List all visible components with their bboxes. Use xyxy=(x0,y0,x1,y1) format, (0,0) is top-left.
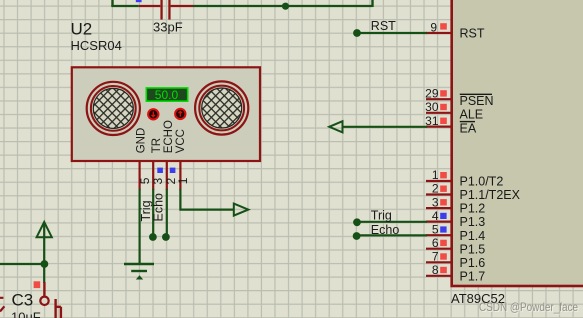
MCU pin stub 30 xyxy=(426,112,451,114)
svg-text:5: 5 xyxy=(138,177,152,184)
pin marker red square 9 xyxy=(440,23,447,29)
pin marker red square 31 xyxy=(440,118,447,124)
LED indicator down xyxy=(148,109,158,119)
pin marker blue square (clipped at top) xyxy=(136,0,142,2)
wire Trig to pin 4 xyxy=(357,221,427,223)
capacitor C (33pF) left lead xyxy=(139,5,161,7)
MCU pin label PSEN (overlined) xyxy=(460,94,494,108)
wire top-left vertical into clock net xyxy=(111,0,113,6)
ground symbol xyxy=(124,264,154,279)
left transducer inner ring xyxy=(91,86,136,131)
wire end dot Echo (MCU side) xyxy=(353,232,361,240)
terminal arrow up (power) xyxy=(37,222,52,237)
svg-text:4: 4 xyxy=(432,209,439,223)
svg-text:8: 8 xyxy=(432,263,439,277)
right transducer outer ring xyxy=(195,81,248,134)
svg-text:2: 2 xyxy=(432,182,439,196)
MCU pin stub 7 xyxy=(426,261,451,263)
svg-text:CSDN @Powder_face: CSDN @Powder_face xyxy=(479,300,578,314)
clipped component fragment bottom (h shape) xyxy=(56,299,61,318)
pin marker red square 8 xyxy=(440,267,447,273)
MCU pin stub 31 xyxy=(426,125,451,127)
MCU pin stub 4 xyxy=(426,221,451,223)
pin marker blue square TR xyxy=(157,168,163,173)
MCU pin stub 29 xyxy=(426,98,451,100)
pin marker blue square 5 xyxy=(440,226,446,232)
module pin stub VCC xyxy=(179,161,181,190)
MCU U1 body xyxy=(452,0,583,286)
svg-text:P1.4: P1.4 xyxy=(460,229,486,243)
wire corner up at right end of top wire xyxy=(371,0,373,7)
svg-text:GND: GND xyxy=(135,128,147,154)
wire EA xyxy=(342,126,427,128)
junction dot on top wire xyxy=(282,3,289,10)
MCU pin stub 8 xyxy=(426,275,451,277)
wire end dot RST xyxy=(353,29,361,37)
svg-text:5: 5 xyxy=(432,222,439,236)
svg-text:30: 30 xyxy=(425,100,439,114)
svg-text:C3: C3 xyxy=(12,291,34,310)
terminal arrow right (VCC) xyxy=(234,204,249,216)
module pin stub GND xyxy=(139,161,141,190)
wire top horizontal to capacitor xyxy=(111,5,139,7)
svg-text:33pF: 33pF xyxy=(153,20,183,35)
wire TR pin down xyxy=(152,189,154,236)
svg-text:P1.6: P1.6 xyxy=(460,256,486,270)
capacitor C3 pin circle xyxy=(40,297,48,305)
svg-text:ECHO: ECHO xyxy=(163,120,175,153)
svg-text:3: 3 xyxy=(432,195,439,209)
pin marker red square 2 xyxy=(440,186,447,192)
svg-text:29: 29 xyxy=(425,86,439,100)
left transducer mesh xyxy=(93,88,133,128)
svg-text:Trig: Trig xyxy=(371,209,392,223)
svg-text:EA: EA xyxy=(460,121,477,135)
module pin stub ECHO xyxy=(166,161,168,190)
svg-text:P1.7: P1.7 xyxy=(460,269,486,283)
pin marker red square 29 xyxy=(440,90,447,96)
svg-text:P1.0/T2: P1.0/T2 xyxy=(460,175,504,189)
watermark xyxy=(479,300,579,315)
MCU pin stub 5 xyxy=(426,234,451,236)
capacitor C3 pin lead xyxy=(43,282,45,296)
right transducer mesh xyxy=(202,88,242,128)
terminal arrow left (EA) xyxy=(329,121,342,132)
svg-text:ALE: ALE xyxy=(460,107,484,121)
MCU pin stub 3 xyxy=(426,207,451,209)
pin marker red square 6 xyxy=(440,240,447,246)
wire VCC pin down then right xyxy=(180,189,233,210)
pin marker blue square ECHO xyxy=(170,168,176,173)
svg-text:9: 9 xyxy=(430,20,437,34)
pin marker red square 3 xyxy=(440,199,447,205)
wire Echo to pin 5 xyxy=(357,234,427,236)
svg-text:HCSR04: HCSR04 xyxy=(71,38,122,53)
svg-text:7: 7 xyxy=(432,250,439,264)
MCU pin stub 6 xyxy=(426,248,451,250)
wire ECHO pin down xyxy=(166,189,168,236)
capacitor C (33pF) right lead xyxy=(171,5,193,7)
clipped component fragment left edge xyxy=(0,298,4,312)
right transducer inner ring xyxy=(199,86,244,131)
LCD readout frame xyxy=(146,88,187,101)
MCU pin stub 9 xyxy=(426,32,451,34)
wire end dot Trig (MCU side) xyxy=(353,218,361,226)
pin marker red square 30 xyxy=(440,104,447,110)
module U2 body xyxy=(72,67,260,161)
wire GND pin down to ground xyxy=(139,189,141,263)
wire top horizontal right of capacitor xyxy=(193,5,373,7)
svg-text:TR: TR xyxy=(151,138,163,153)
MCU pin stub 2 xyxy=(426,193,451,195)
svg-text:P1.5: P1.5 xyxy=(460,242,486,256)
svg-text:1: 1 xyxy=(176,177,190,184)
svg-text:RST: RST xyxy=(371,19,396,33)
svg-text:U2: U2 xyxy=(71,20,93,39)
svg-text:50.0: 50.0 xyxy=(155,88,179,102)
pin marker red square C3 xyxy=(34,281,41,288)
wire from power terminal down xyxy=(43,223,45,283)
MCU pin stub 1 xyxy=(426,180,451,182)
svg-text:PSEN: PSEN xyxy=(460,94,494,108)
wire RST xyxy=(357,32,427,34)
capacitor C (33pF) plates xyxy=(160,0,162,20)
pin marker red square 7 xyxy=(440,253,447,259)
LED indicator up xyxy=(175,109,185,119)
svg-text:Echo: Echo xyxy=(151,193,165,222)
junction dot left rail xyxy=(41,260,49,268)
svg-text:P1.2: P1.2 xyxy=(460,202,486,216)
MCU pin label EA (overlined) xyxy=(460,121,477,135)
svg-text:10uF: 10uF xyxy=(11,310,41,318)
svg-text:1: 1 xyxy=(432,168,439,182)
pin marker red square 1 xyxy=(440,172,447,178)
svg-text:P1.3: P1.3 xyxy=(460,215,486,229)
svg-text:VCC: VCC xyxy=(175,129,187,153)
wire left to edge xyxy=(0,263,44,265)
wire end dot Trig xyxy=(149,233,157,241)
pin marker blue square 4 xyxy=(440,213,446,219)
svg-text:P1.1/T2EX: P1.1/T2EX xyxy=(460,188,521,202)
svg-text:31: 31 xyxy=(425,114,439,128)
svg-text:RST: RST xyxy=(460,26,485,40)
module pin stub TR xyxy=(152,161,154,190)
svg-text:3: 3 xyxy=(151,178,165,185)
wire end dot Echo xyxy=(162,233,170,241)
svg-text:6: 6 xyxy=(432,236,439,250)
svg-text:Echo: Echo xyxy=(371,223,400,237)
left transducer outer ring xyxy=(87,82,140,135)
